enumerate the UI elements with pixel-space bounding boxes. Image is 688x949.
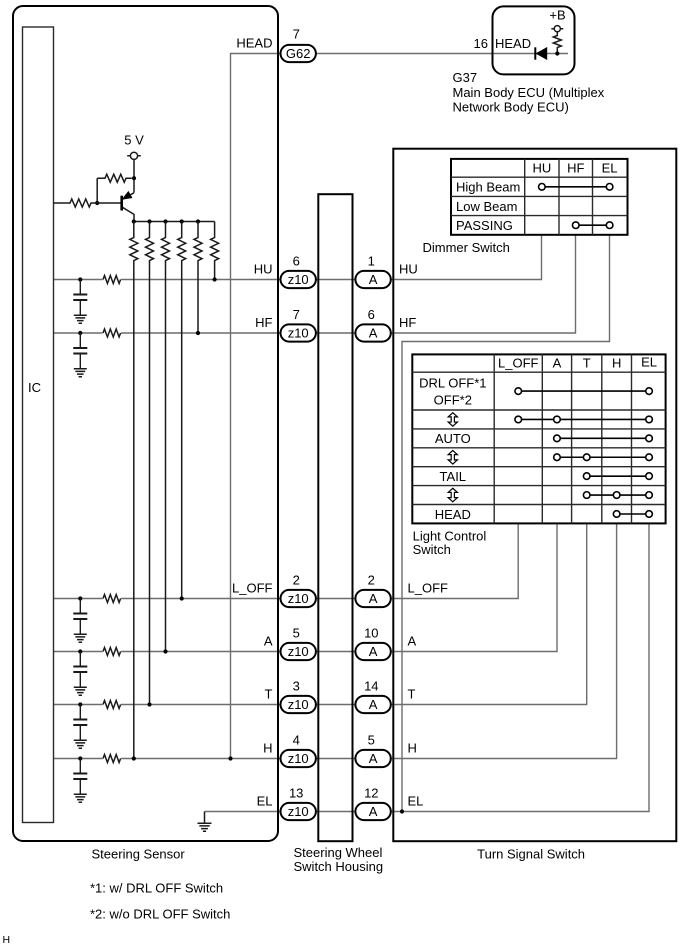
svg-text:14: 14	[364, 679, 378, 694]
connector A (EL)	[355, 803, 390, 820]
svg-text:*1: w/ DRL OFF Switch: *1: w/ DRL OFF Switch	[90, 881, 223, 896]
svg-text:IC: IC	[28, 380, 41, 395]
connector z10 (L_OFF)	[281, 590, 316, 607]
node bank-A junction	[163, 649, 167, 653]
svg-text:z10: z10	[288, 644, 309, 659]
svg-text:HEAD: HEAD	[435, 507, 471, 522]
transistor Q1 (PNP)	[122, 192, 134, 222]
svg-text:HU: HU	[399, 262, 418, 277]
resistor bank R6 (to HU)	[211, 222, 219, 280]
svg-text:Switch Housing: Switch Housing	[294, 859, 384, 874]
node bank-HU junction	[213, 277, 217, 281]
contact High Beam HU-EL	[539, 184, 613, 191]
resistor HF row	[103, 328, 122, 338]
wire HU row	[54, 235, 542, 280]
wire EL row	[205, 524, 650, 812]
svg-text:Steering Wheel: Steering Wheel	[294, 845, 383, 860]
table Dimmer Switch grid	[451, 159, 628, 235]
svg-text:5 V: 5 V	[124, 133, 144, 148]
node bank-L_OFF junction	[180, 596, 184, 600]
node rail junction 5	[196, 219, 200, 223]
resistor bank R2 (to T)	[146, 222, 154, 705]
svg-text:*2: w/o DRL OFF Switch: *2: w/o DRL OFF Switch	[90, 907, 230, 922]
svg-text:EL: EL	[257, 794, 273, 809]
svg-text:A: A	[553, 356, 562, 371]
svg-text:Main Body ECU (Multiplex: Main Body ECU (Multiplex	[453, 85, 605, 100]
contact TAIL row	[583, 473, 652, 480]
label Steering Wheel Switch Housing	[294, 845, 384, 874]
svg-text:Turn Signal Switch: Turn Signal Switch	[477, 847, 585, 862]
svg-text:High Beam: High Beam	[456, 180, 520, 195]
table Light Control Switch frame	[412, 354, 665, 523]
svg-text:z10: z10	[288, 804, 309, 819]
svg-text:EL: EL	[602, 161, 618, 176]
svg-text:13: 13	[289, 786, 303, 801]
node cap junction HF	[78, 331, 82, 335]
svg-text:EL: EL	[641, 355, 657, 370]
svg-text:H: H	[408, 741, 417, 756]
node cap junction H	[78, 756, 82, 760]
svg-text:TAIL: TAIL	[440, 469, 467, 484]
arrow updown 3	[448, 488, 457, 502]
node rail junction 2	[147, 219, 151, 223]
wire A row	[54, 524, 557, 652]
contact DRL OFF row	[515, 388, 652, 395]
svg-text:A: A	[264, 634, 273, 649]
resistor bank R5 (to HF)	[194, 222, 202, 334]
svg-text:HF: HF	[399, 315, 416, 330]
connector z10 (HF)	[281, 324, 316, 341]
node cap junction HU	[78, 277, 82, 281]
svg-text:A: A	[369, 697, 378, 712]
node EL junction	[400, 809, 404, 813]
node rail junction 1	[132, 219, 136, 223]
wire HF row	[54, 235, 576, 333]
svg-text:6: 6	[368, 307, 375, 322]
capacitor HF row	[73, 333, 87, 368]
svg-text:L_OFF: L_OFF	[408, 581, 449, 596]
svg-text:T: T	[408, 687, 416, 702]
svg-text:10: 10	[364, 626, 378, 641]
svg-text:z10: z10	[288, 697, 309, 712]
svg-text:A: A	[369, 804, 378, 819]
svg-text:A: A	[369, 272, 378, 287]
svg-text:Dimmer Switch: Dimmer Switch	[423, 240, 510, 255]
svg-text:OFF*2: OFF*2	[434, 392, 472, 407]
wire EL dimmer branch	[402, 235, 610, 812]
connector z10 (A)	[281, 643, 316, 660]
svg-text:HEAD: HEAD	[495, 36, 531, 51]
connector A (HF)	[355, 324, 390, 341]
svg-text:H: H	[263, 741, 272, 756]
svg-text:Switch: Switch	[413, 542, 451, 557]
svg-text:HEAD: HEAD	[236, 36, 272, 51]
node cap junction L_OFF	[78, 596, 82, 600]
node bank-HF junction	[196, 331, 200, 335]
svg-text:16: 16	[474, 36, 488, 51]
svg-text:T: T	[265, 687, 273, 702]
svg-text:AUTO: AUTO	[435, 431, 471, 446]
connector A (HU)	[355, 271, 390, 288]
contact updown3 row	[583, 492, 652, 499]
svg-text:H: H	[3, 934, 11, 946]
node rail junction 3	[163, 219, 167, 223]
power supply symbol 5V	[127, 152, 141, 159]
connector A (A)	[355, 643, 390, 660]
svg-text:6: 6	[293, 254, 300, 269]
table Light Control Switch grid	[412, 354, 665, 523]
connector A (T)	[355, 696, 390, 713]
ground A row	[74, 687, 87, 695]
ground H row	[74, 794, 87, 802]
svg-text:4: 4	[293, 733, 300, 748]
svg-text:7: 7	[293, 307, 300, 322]
arrow updown 2	[448, 450, 457, 464]
svg-text:Steering Sensor: Steering Sensor	[92, 847, 186, 862]
svg-text:z10: z10	[288, 751, 309, 766]
component box Turn Signal Switch	[393, 149, 676, 842]
node bank-T junction	[147, 702, 151, 706]
svg-text:A: A	[369, 591, 378, 606]
ground T row	[74, 740, 87, 748]
node base junction	[95, 201, 99, 205]
resistor in ECU	[553, 32, 561, 54]
wire L_OFF row	[54, 524, 518, 599]
ground EL (steering sensor)	[198, 812, 212, 832]
svg-text:A: A	[369, 644, 378, 659]
IC block	[23, 27, 54, 823]
wire collector rail	[134, 221, 215, 223]
svg-text:H: H	[612, 356, 621, 371]
arrow updown 1	[448, 413, 457, 427]
wire T row	[54, 524, 587, 705]
svg-text:PASSING: PASSING	[456, 218, 513, 233]
table Dimmer Switch headers	[532, 161, 617, 176]
node cap junction T	[78, 702, 82, 706]
diode in ECU	[535, 47, 547, 59]
node HEAD-H junction	[228, 756, 232, 760]
svg-text:DRL OFF*1: DRL OFF*1	[419, 376, 486, 391]
wire 5V to emitter junction	[133, 159, 135, 192]
table Dimmer Switch frame	[451, 159, 628, 235]
node cap junction A	[78, 649, 82, 653]
table Light Control Switch headers	[498, 355, 657, 371]
label Light Control Switch	[413, 529, 487, 558]
resistor HU row	[103, 274, 122, 284]
svg-text:2: 2	[368, 573, 375, 588]
contact HEAD row	[613, 511, 652, 518]
svg-text:z10: z10	[288, 591, 309, 606]
svg-text:T: T	[583, 356, 591, 371]
component box Steering Sensor	[13, 6, 278, 841]
wire HEAD from G62 to ECU	[316, 53, 568, 55]
component box G37 Main Body ECU	[493, 6, 575, 74]
resistor T row	[103, 699, 122, 709]
resistor base (from IC)	[54, 199, 121, 207]
resistor feedback (base to 5V)	[97, 174, 132, 182]
resistor L_OFF row	[103, 593, 122, 603]
svg-text:5: 5	[293, 626, 300, 641]
contact updown1 row	[515, 416, 652, 423]
node ECU junction	[555, 51, 559, 55]
node bank-H junction	[132, 756, 136, 760]
ground HU row	[74, 315, 87, 323]
svg-text:7: 7	[293, 27, 300, 42]
svg-text:HU: HU	[254, 262, 273, 277]
svg-text:z10: z10	[288, 272, 309, 287]
svg-text:G37: G37	[453, 70, 478, 85]
wire HEAD (vertical tap from H row up and right to G62)	[231, 54, 282, 759]
ground L_OFF row	[74, 634, 87, 642]
capacitor T row	[73, 705, 87, 740]
wire feedback left leg	[96, 178, 98, 203]
resistor bank R1 (to H)	[130, 222, 138, 759]
svg-text:A: A	[408, 634, 417, 649]
ground HF row	[74, 369, 87, 377]
svg-text:L_OFF: L_OFF	[498, 356, 539, 371]
svg-text:HF: HF	[255, 315, 272, 330]
resistor A row	[103, 646, 122, 656]
resistor H row	[103, 753, 122, 763]
power supply symbol +B	[551, 26, 563, 32]
svg-text:+B: +B	[549, 8, 565, 23]
connector A (H)	[355, 750, 390, 767]
svg-text:5: 5	[368, 733, 375, 748]
contact PASSING HF-EL	[572, 222, 612, 229]
connector z10 (HU)	[281, 271, 316, 288]
svg-text:12: 12	[364, 786, 378, 801]
svg-text:Low Beam: Low Beam	[456, 199, 517, 214]
connector z10 (T)	[281, 696, 316, 713]
connector z10 (EL)	[281, 803, 316, 820]
svg-text:3: 3	[293, 679, 300, 694]
svg-text:2: 2	[293, 573, 300, 588]
connector G62	[281, 45, 316, 62]
node rail junction 4	[180, 219, 184, 223]
component box Steering Wheel Switch Housing	[318, 194, 352, 841]
resistor bank R4 (to L_OFF)	[178, 222, 186, 599]
svg-text:EL: EL	[408, 794, 424, 809]
svg-text:1: 1	[368, 254, 375, 269]
svg-text:Network Body ECU): Network Body ECU)	[453, 100, 569, 115]
svg-text:z10: z10	[288, 326, 309, 341]
svg-text:HF: HF	[567, 161, 584, 176]
svg-text:L_OFF: L_OFF	[232, 581, 273, 596]
capacitor H row	[73, 759, 87, 794]
label DRL OFF*1 OFF*2	[419, 376, 486, 408]
contact AUTO row	[554, 435, 653, 442]
wire H row	[54, 524, 617, 759]
capacitor L_OFF row	[73, 599, 87, 634]
connector A (L_OFF)	[355, 590, 390, 607]
svg-text:A: A	[369, 751, 378, 766]
resistor bank R3 (to A)	[162, 222, 170, 652]
svg-text:HU: HU	[532, 161, 551, 176]
contact updown2 row	[554, 454, 653, 461]
node feedback junction	[132, 176, 136, 180]
connector z10 (H)	[281, 750, 316, 767]
svg-text:G62: G62	[286, 46, 311, 61]
svg-text:A: A	[369, 326, 378, 341]
capacitor A row	[73, 652, 87, 687]
capacitor HU row	[73, 280, 87, 315]
